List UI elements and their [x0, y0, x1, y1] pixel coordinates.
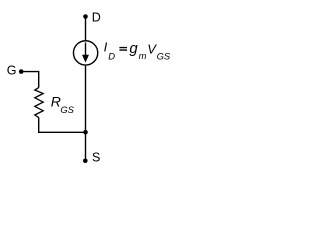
- node S: [83, 151, 100, 165]
- wire D to current source: [85, 17, 87, 42]
- wire junction to S: [85, 132, 87, 161]
- junction node: [83, 130, 88, 135]
- svg-text:S: S: [92, 151, 100, 165]
- wire G to resistor: [21, 72, 39, 88]
- svg-text:D: D: [92, 11, 101, 25]
- wire resistor to junction: [39, 118, 86, 133]
- node D: [83, 11, 101, 25]
- node G: [7, 64, 24, 78]
- wire current source to junction: [85, 66, 87, 133]
- resistor RGS: [35, 88, 43, 118]
- svg-text:G: G: [7, 64, 17, 78]
- current source I1: [73, 41, 97, 65]
